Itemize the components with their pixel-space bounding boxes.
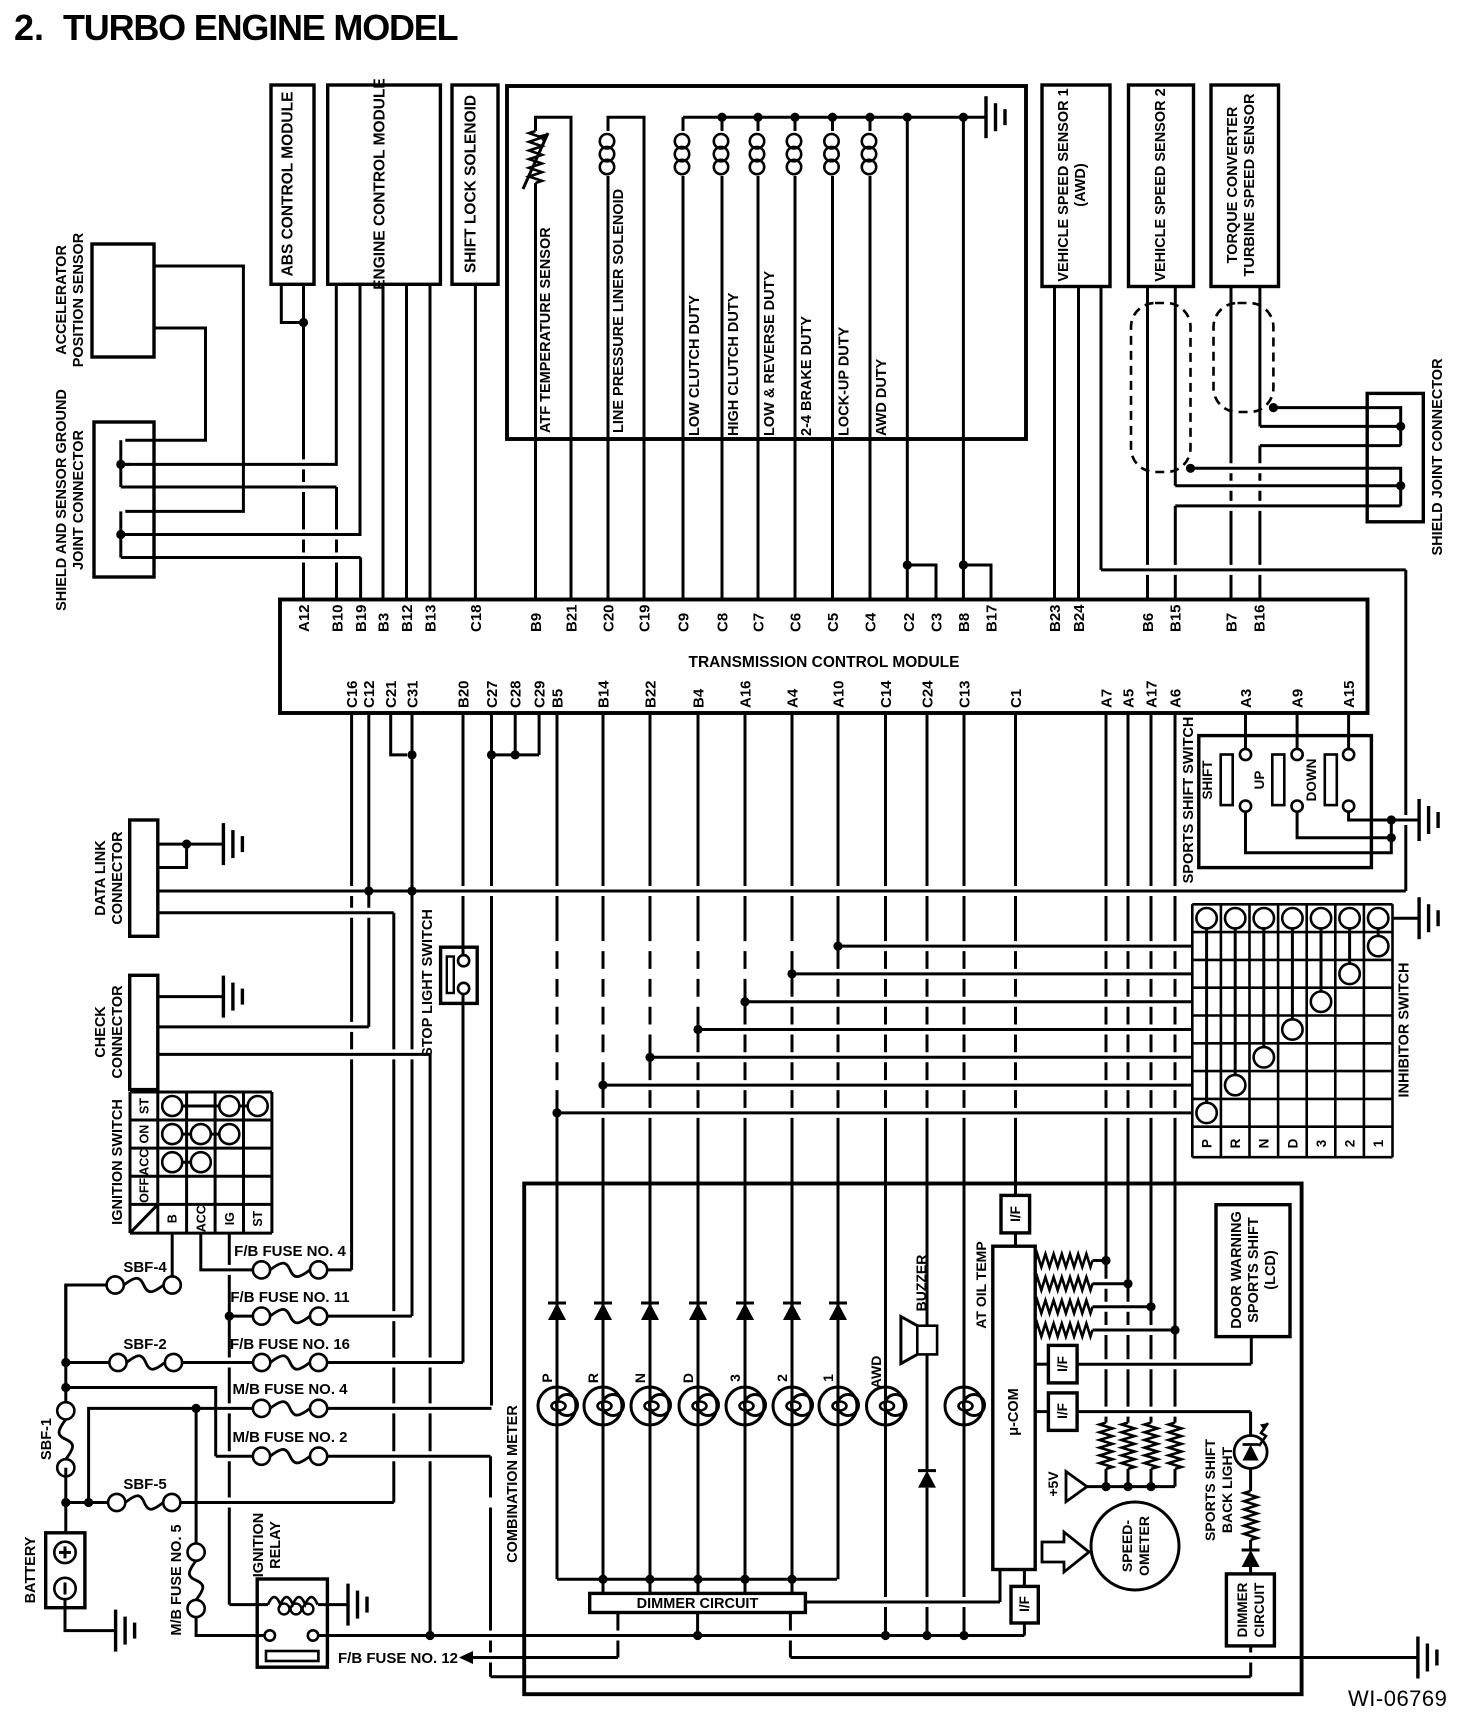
wire SBF-4 to rail — [66, 1285, 107, 1363]
node shield dot1 — [116, 460, 125, 469]
uCOM resistor 3 — [1035, 1300, 1092, 1313]
wire check pin2 — [158, 1025, 369, 1028]
svg-text:I/F: I/F — [1017, 1596, 1032, 1612]
resistor A7 vertical — [1100, 1423, 1113, 1469]
svg-text:STOP LIGHT SWITCH: STOP LIGHT SWITCH — [420, 909, 436, 1057]
fusible link SBF-2 — [109, 1354, 126, 1371]
svg-text:B16: B16 — [1251, 604, 1268, 632]
svg-text:D: D — [680, 1373, 696, 1383]
wire UP to ground bus — [1297, 812, 1391, 838]
wire B4 column — [697, 713, 700, 1393]
switch DOWN — [1325, 755, 1337, 806]
wire C4 leg — [869, 439, 872, 600]
wire B16 return — [1260, 444, 1401, 447]
fusible link SBF-5 — [108, 1494, 125, 1511]
svg-text:F/B FUSE NO. 11: F/B FUSE NO. 11 — [230, 1289, 349, 1306]
wire C9 leg — [682, 439, 685, 600]
wire fuse4 to C16 — [327, 1268, 351, 1271]
dimmer circuit 2 box — [1226, 1574, 1274, 1646]
svg-text:N: N — [632, 1373, 648, 1383]
wire DLC pin4 — [158, 911, 394, 914]
svg-text:B19: B19 — [353, 604, 370, 632]
sports shift back light LED — [1234, 1436, 1267, 1469]
svg-text:AT OIL TEMP: AT OIL TEMP — [973, 1241, 989, 1328]
wire B16 lower — [1258, 446, 1261, 600]
DLC ground — [222, 823, 225, 865]
wire C12 upper — [367, 713, 370, 891]
node C31 junction — [407, 886, 416, 895]
wire IF2 to door warning — [1077, 1363, 1251, 1366]
wire B19 shield to TCM — [121, 556, 361, 559]
wire shield dot2 lead — [121, 533, 130, 536]
wire sports ground lead — [1391, 819, 1419, 822]
stop light switch box — [441, 947, 478, 1003]
uCOM resistor 2 — [1035, 1277, 1092, 1290]
back light diode — [1249, 1540, 1252, 1549]
sports shift switch box — [1199, 736, 1372, 868]
uCOM resistor 4 — [1035, 1324, 1092, 1337]
svg-text:A15: A15 — [1341, 680, 1358, 708]
battery ground — [114, 1610, 117, 1652]
svg-text:SPORTS SHIFT: SPORTS SHIFT — [1246, 1217, 1262, 1323]
ignition switch contacts ST row — [172, 1105, 258, 1108]
bottom right ground — [1416, 1637, 1419, 1679]
wire rail to SBF-2 — [66, 1361, 110, 1364]
wire SBF-5 to C21 riser — [180, 1501, 393, 1504]
svg-text:A12: A12 — [296, 604, 313, 632]
svg-text:2.: 2. — [14, 7, 44, 48]
wire DLC pin1 to ground — [158, 843, 224, 846]
wire dimmer illumination feed — [491, 1675, 1251, 1678]
svg-text:ON: ON — [137, 1125, 151, 1144]
svg-text:BATTERY: BATTERY — [23, 1536, 39, 1603]
lamp bottom segments — [556, 1393, 559, 1580]
svg-text:B8: B8 — [956, 613, 973, 632]
svg-text:A4: A4 — [784, 688, 801, 708]
svg-text:B15: B15 — [1167, 604, 1184, 632]
wire A7 column — [1105, 713, 1108, 1261]
wire C20 leg — [607, 439, 610, 600]
wire C27 to dimmer feed riser — [489, 1456, 492, 1677]
wire B15 into SJC — [1175, 484, 1400, 487]
svg-text:OFF: OFF — [137, 1178, 151, 1203]
ignition switch contacts ACC row — [172, 1161, 201, 1164]
svg-text:SHIELD JOINT CONNECTOR: SHIELD JOINT CONNECTOR — [1430, 358, 1446, 556]
node B22 inhibitor tap — [645, 1053, 654, 1062]
battery negative terminal — [54, 1578, 75, 1599]
node A4 inhibitor tap — [787, 969, 796, 978]
svg-text:2-4 BRAKE DUTY: 2-4 BRAKE DUTY — [799, 316, 815, 436]
wire dimmer1 to uCOM — [805, 1601, 1000, 1604]
svg-text:C27: C27 — [484, 680, 501, 708]
wire shield dot1 lead — [121, 463, 130, 466]
svg-text:I/F: I/F — [1055, 1356, 1070, 1372]
node A16 inhibitor tap — [740, 997, 749, 1006]
svg-text:B20: B20 — [455, 680, 472, 708]
solenoid LOW CLUTCH DUTY — [682, 117, 685, 131]
wire relay output line — [318, 1634, 1024, 1637]
svg-text:C29: C29 — [532, 680, 549, 708]
solenoid AWD DUTY — [869, 117, 872, 131]
wire A5 column — [1127, 713, 1130, 1284]
wire A16 column — [744, 713, 747, 1393]
microcomputer uCOM box — [993, 1246, 1035, 1569]
svg-text:1: 1 — [820, 1374, 836, 1382]
inhibitor top contacts — [1196, 908, 1216, 928]
svg-text:B14: B14 — [595, 680, 612, 708]
node SJC lower — [1396, 481, 1405, 490]
lamp bus stubs to dimmer — [602, 1579, 605, 1595]
wire ABS pin1 to junction — [281, 284, 299, 322]
wire B17 branch — [963, 565, 991, 600]
svg-text:B17: B17 — [983, 604, 1000, 632]
svg-text:ST: ST — [137, 1098, 151, 1114]
svg-text:SHIELD AND SENSOR GROUND: SHIELD AND SENSOR GROUND — [54, 389, 70, 611]
svg-text:C31: C31 — [404, 680, 421, 708]
svg-text:LOW CLUTCH DUTY: LOW CLUTCH DUTY — [687, 295, 703, 436]
door warning sports shift LCD box — [1216, 1205, 1290, 1337]
svg-text:ACC: ACC — [194, 1205, 208, 1232]
wire C1 column — [1014, 713, 1017, 1195]
accelerator position sensor box — [92, 244, 154, 357]
wire B20 lower — [462, 994, 465, 1363]
transmission solenoid assembly box — [507, 86, 1026, 439]
wire rail to M/B fuse2 feed — [66, 1388, 216, 1457]
wire B13 ECM to TCM — [429, 284, 432, 599]
shift lock solenoid box — [452, 85, 498, 284]
svg-text:B10: B10 — [329, 604, 346, 632]
svg-text:C5: C5 — [825, 613, 842, 632]
svg-text:ENGINE CONTROL MODULE: ENGINE CONTROL MODULE — [372, 78, 389, 290]
svg-text:AWD DUTY: AWD DUTY — [874, 358, 890, 436]
svg-text:DIMMER: DIMMER — [1235, 1582, 1250, 1637]
wire fuse5 to relay — [196, 1617, 264, 1635]
wire A5 lower — [1127, 1284, 1130, 1423]
wire fuse M/B2 to dimmer feed — [327, 1455, 490, 1458]
AT oil temp lamp — [945, 1387, 983, 1425]
wire C24 column — [926, 713, 929, 1326]
wire resistors to 5V bus — [1105, 1469, 1108, 1487]
node B4 inhibitor tap — [693, 1025, 702, 1034]
svg-text:IGNITION SWITCH: IGNITION SWITCH — [110, 1099, 126, 1225]
node ABS junction — [299, 318, 308, 327]
inhibitor ground — [1417, 897, 1420, 939]
inhibitor diagonal contacts — [1377, 928, 1380, 936]
line pressure liner solenoid — [608, 117, 644, 439]
svg-text:WI-06769: WI-06769 — [1348, 1686, 1447, 1711]
ignition switch diagonal — [130, 1204, 158, 1233]
wire B21 leg — [570, 439, 573, 600]
wire C18 shift lock solenoid to TCM — [474, 284, 477, 599]
wire accel pin1 — [125, 266, 243, 511]
wire dimmer to fuse12 — [471, 1656, 618, 1659]
svg-text:A9: A9 — [1289, 689, 1306, 708]
transmission control module box — [280, 600, 1368, 714]
fusible link SBF-4 — [107, 1276, 124, 1293]
switch SHIFT — [1221, 755, 1233, 806]
svg-text:SBF-1: SBF-1 — [39, 1418, 55, 1460]
wire A15 — [1347, 713, 1350, 749]
fuse F/B no.4 — [253, 1261, 270, 1278]
wire relay coil to ground — [318, 1603, 348, 1606]
node rail SBF-5 junction — [61, 1498, 70, 1507]
wire ACC column to fuse4 — [201, 1233, 253, 1270]
wire TC drain to SJC — [1273, 408, 1400, 446]
svg-text:ABS CONTROL MODULE: ABS CONTROL MODULE — [280, 92, 297, 277]
ATF temperature sensor hairpin — [536, 117, 572, 439]
node TC shield drain — [1269, 403, 1278, 412]
svg-text:+5V: +5V — [1045, 1471, 1061, 1497]
relay slug — [266, 1651, 318, 1661]
wire C31 upper — [411, 713, 414, 891]
wire B15 lower — [1174, 506, 1177, 600]
data link connector box — [130, 820, 158, 936]
svg-text:A3: A3 — [1238, 689, 1255, 708]
wire B14 inhibitor feed — [603, 1084, 1192, 1087]
wire lamp bus — [557, 1578, 837, 1581]
wire relay line to IF4 — [1023, 1623, 1026, 1636]
wire DOWN to ground bus — [1349, 812, 1392, 820]
svg-text:LINE PRESSURE LINER SOLENOID: LINE PRESSURE LINER SOLENOID — [611, 189, 627, 433]
wire VSS2 drain to SJC — [1191, 468, 1401, 506]
wire C29 stub to bracket — [538, 713, 541, 755]
fuse M/B no.4 — [253, 1400, 270, 1417]
wire fuse M/B4 to C27 — [327, 1407, 491, 1410]
check connector box — [130, 975, 158, 1089]
svg-text:C20: C20 — [600, 604, 617, 632]
wire check pin3 — [158, 1053, 430, 1056]
node C28 bracket — [511, 750, 520, 759]
wire check connector line — [429, 1054, 432, 1635]
svg-text:ACCELERATOR: ACCELERATOR — [54, 245, 70, 355]
node C31 bracket — [407, 750, 416, 759]
node rail MB2 junction — [61, 1383, 70, 1392]
wire A17 lower — [1150, 1307, 1153, 1423]
svg-text:2: 2 — [774, 1374, 790, 1382]
svg-text:A5: A5 — [1120, 689, 1137, 708]
svg-text:SHIFT LOCK SOLENOID: SHIFT LOCK SOLENOID — [463, 95, 480, 273]
wire B6 — [1146, 287, 1149, 600]
wire B column to SBF-4 — [171, 1233, 174, 1285]
relay coil — [268, 1597, 318, 1605]
node DLC ground junction — [182, 840, 191, 849]
wire C2 from bus — [906, 117, 909, 439]
svg-text:F/B FUSE NO. 12: F/B FUSE NO. 12 — [338, 1650, 458, 1667]
shield and sensor ground joint connector box — [94, 422, 154, 577]
resistor A6 vertical — [1169, 1423, 1182, 1469]
svg-text:M/B FUSE NO. 5: M/B FUSE NO. 5 — [169, 1524, 185, 1635]
svg-text:SBF-4: SBF-4 — [123, 1259, 167, 1276]
wire B9 leg — [534, 439, 537, 600]
svg-text:LOCK-UP DUTY: LOCK-UP DUTY — [837, 326, 853, 436]
svg-text:C3: C3 — [928, 613, 945, 632]
svg-text:ACC: ACC — [137, 1149, 151, 1176]
svg-text:CHECK: CHECK — [93, 1006, 109, 1058]
svg-text:C14: C14 — [878, 680, 895, 708]
wire SBF-2 to fuse16 — [182, 1361, 253, 1364]
wire C5 leg — [831, 439, 834, 600]
wire A3 — [1244, 713, 1247, 749]
node C12 junction — [364, 886, 373, 895]
sports shift ground — [1417, 799, 1420, 841]
wire B5 column — [556, 713, 559, 1393]
node A5 res tap — [1123, 1279, 1132, 1288]
node VSS2 shield drain — [1186, 464, 1195, 473]
wire C31 lower — [411, 891, 414, 1316]
svg-text:B13: B13 — [422, 604, 439, 632]
svg-text:B24: B24 — [1071, 604, 1088, 632]
svg-text:BACK LIGHT: BACK LIGHT — [1219, 1446, 1235, 1533]
svg-text:UP: UP — [1252, 771, 1267, 790]
svg-text:B5: B5 — [549, 689, 566, 708]
VSS2 cable shield — [1131, 303, 1191, 472]
TC cable shield — [1214, 303, 1274, 412]
wire C21 stub to C31 — [391, 713, 407, 755]
node bus C2 tap — [903, 113, 912, 122]
wire B12 ECM to TCM — [405, 284, 408, 599]
svg-text:POSITION SENSOR: POSITION SENSOR — [71, 232, 87, 367]
svg-text:N: N — [1257, 1139, 1272, 1149]
wire C3 branch — [907, 565, 936, 600]
inhibitor ground lead — [1393, 917, 1420, 920]
lamp diodes — [548, 1302, 566, 1305]
svg-text:B9: B9 — [528, 613, 545, 632]
svg-text:C9: C9 — [675, 613, 692, 632]
svg-text:1: 1 — [1371, 1139, 1386, 1147]
wire A6 lower — [1174, 1330, 1177, 1423]
IF box 3 — [1035, 1410, 1048, 1413]
buzzer speaker — [917, 1326, 937, 1355]
wire IG to fuse11 — [229, 1315, 253, 1318]
node B8-B17 junction — [959, 560, 968, 569]
node IG fuse11 junction — [225, 1312, 234, 1321]
svg-text:C28: C28 — [508, 680, 525, 708]
node buzzer junction — [922, 1631, 931, 1640]
wire A10 inhibitor feed — [838, 945, 1192, 948]
wire buzzer column — [926, 1354, 929, 1470]
wire C19 leg — [643, 439, 646, 600]
solenoid LOCK-UP DUTY — [831, 117, 834, 131]
fuse F/B no.16 — [253, 1354, 270, 1371]
wire battery to ground — [65, 1599, 116, 1630]
node bus B8 tap — [959, 113, 968, 122]
battery positive terminal — [54, 1542, 75, 1563]
svg-text:BUZZER: BUZZER — [913, 1255, 929, 1312]
wire B24 — [1077, 287, 1080, 600]
wire ECM pin1 to shield dot1 — [125, 284, 336, 464]
svg-text:SPORTS SHIFT SWITCH: SPORTS SHIFT SWITCH — [1181, 717, 1197, 884]
wire check pin1 to ground — [158, 995, 224, 998]
wire VSS1 shield to right rail — [1100, 287, 1103, 570]
uCOM resistor 1 — [1035, 1254, 1092, 1267]
IF box 2 — [1035, 1363, 1048, 1366]
IF box 4 — [1023, 1570, 1026, 1587]
wire C27 stub — [490, 713, 493, 755]
svg-text:3: 3 — [727, 1374, 743, 1382]
vehicle speed sensor 1 box — [1042, 85, 1110, 287]
svg-text:F/B FUSE NO. 4: F/B FUSE NO. 4 — [234, 1243, 346, 1260]
svg-text:RELAY: RELAY — [268, 1521, 284, 1569]
wire SHIFT to ground bus — [1246, 812, 1392, 853]
ignition switch contacts ON row — [172, 1133, 229, 1136]
wire B22 column — [649, 713, 652, 1393]
svg-text:(LCD): (LCD) — [1263, 1250, 1279, 1290]
fusible link SBF-1 — [57, 1402, 74, 1419]
wire B4 inhibitor feed — [698, 1028, 1192, 1031]
wire B8 leg — [962, 439, 965, 600]
wire C27 long — [490, 755, 493, 1406]
wire B8 from bus — [962, 117, 965, 439]
wire A10 column — [837, 713, 840, 1393]
AWD lamp — [867, 1387, 905, 1425]
svg-text:C7: C7 — [750, 613, 767, 632]
svg-text:C13: C13 — [956, 680, 973, 708]
wire B23 — [1053, 287, 1056, 600]
svg-text:SBF-2: SBF-2 — [123, 1336, 166, 1353]
plus 5V supply — [1066, 1472, 1087, 1502]
node shield dot2 — [116, 530, 125, 539]
wire C7 leg — [757, 439, 760, 600]
wire fuse16 to B20 — [327, 1361, 463, 1364]
speedometer — [1091, 1502, 1179, 1590]
combination meter box — [524, 1184, 1301, 1695]
node dimmer stub junction — [693, 1631, 702, 1640]
svg-text:C19: C19 — [636, 604, 653, 632]
solenoid HIGH CLUTCH DUTY — [721, 117, 724, 131]
svg-text:JOINT CONNECTOR: JOINT CONNECTOR — [71, 430, 87, 570]
svg-text:CIRCUIT: CIRCUIT — [1252, 1582, 1267, 1637]
svg-text:TORQUE CONVERTER: TORQUE CONVERTER — [1225, 106, 1241, 263]
stop light switch contacts — [458, 955, 469, 966]
wire A9 — [1296, 713, 1299, 749]
node A7 res tap — [1101, 1256, 1110, 1265]
svg-text:A17: A17 — [1143, 680, 1160, 708]
node AWD lamp junction — [881, 1631, 890, 1640]
wire B16 upper — [1258, 287, 1261, 427]
svg-text:C4: C4 — [862, 612, 879, 632]
svg-text:A7: A7 — [1098, 689, 1115, 708]
wire A12 ABS to TCM — [302, 284, 305, 599]
svg-text:B: B — [166, 1214, 180, 1223]
svg-text:C24: C24 — [919, 680, 936, 708]
svg-text:I/F: I/F — [1055, 1403, 1070, 1419]
speedometer arrow — [1042, 1532, 1089, 1572]
svg-text:D: D — [1285, 1138, 1300, 1148]
svg-text:B7: B7 — [1223, 613, 1240, 632]
wire IG column lower — [228, 1316, 231, 1605]
wire A4 inhibitor feed — [792, 972, 1192, 975]
svg-text:P: P — [539, 1373, 555, 1382]
svg-text:A10: A10 — [830, 680, 847, 708]
wire IF3 to back light — [1077, 1410, 1251, 1413]
node SBF-5 left junction — [84, 1498, 93, 1507]
svg-text:(AWD): (AWD) — [1073, 163, 1089, 207]
wire DLC power vertical — [392, 913, 395, 1503]
svg-text:R: R — [1228, 1138, 1243, 1148]
svg-text:OMETER: OMETER — [1136, 1516, 1152, 1576]
relay contact pins — [265, 1630, 275, 1640]
shield connector internal bus 2 — [119, 511, 122, 557]
wire A16 inhibitor feed — [745, 1000, 1192, 1003]
battery box — [46, 1533, 85, 1608]
dimmer circuit bar box — [590, 1593, 806, 1612]
buzzer diode — [918, 1469, 936, 1472]
wire C12 lower — [367, 891, 370, 1027]
resistor A5 vertical — [1122, 1423, 1135, 1469]
svg-text:C16: C16 — [344, 680, 361, 708]
wire M/B fuse4 feed — [89, 1408, 197, 1502]
relay ground — [346, 1584, 349, 1626]
